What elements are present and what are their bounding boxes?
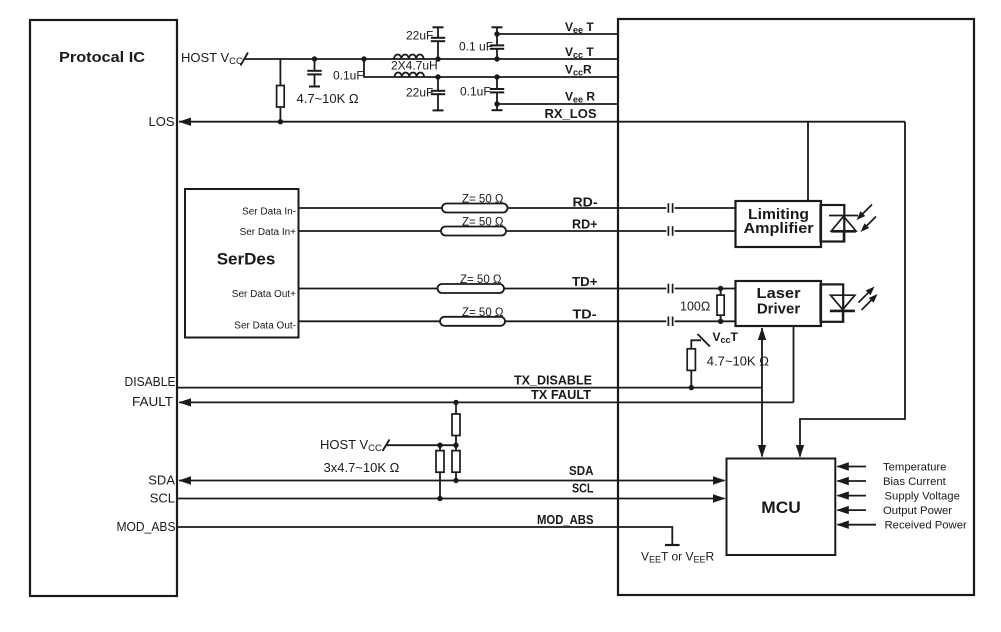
svg-text:0.1uF: 0.1uF [460, 85, 491, 99]
SerDes box U2 [185, 189, 299, 338]
svg-text:MOD_ABS: MOD_ABS [537, 512, 594, 527]
svg-text:TX_DISABLE: TX_DISABLE [514, 373, 592, 388]
svg-text:2X4.7uH: 2X4.7uH [391, 59, 438, 73]
MCU box U5 [727, 459, 836, 556]
coupling cap C7 on RD+ [667, 226, 669, 236]
arrow down into MCU (from RX_LOS routing) [796, 445, 804, 458]
wire RD+ [299, 230, 667, 232]
svg-text:SerDes: SerDes [217, 250, 276, 269]
resistor R1 4.7~10K pull-up LOS [279, 59, 281, 86]
junction R3 on TX_DISABLE [689, 385, 694, 390]
wire RD- [299, 207, 667, 209]
laser diode D2 cathode stub [842, 311, 844, 322]
junction R2 top [718, 286, 723, 291]
junction HOST Vcc / branch [361, 56, 366, 61]
svg-text:Protocal IC: Protocal IC [59, 50, 146, 66]
MCU monitor input lines [838, 466, 867, 468]
light arrowhead into D1 upper [854, 211, 865, 222]
coupling cap C9 on TD- [667, 317, 669, 327]
wire branch to lower rail [364, 59, 618, 77]
svg-text:Temperature: Temperature [883, 462, 946, 474]
svg-text:100Ω: 100Ω [680, 300, 710, 314]
transmission line Z=50 on RD- [442, 204, 508, 213]
photodiode D1 triangle [831, 216, 856, 231]
wire RX_LOS drop to Limiting Amplifier [807, 122, 809, 201]
arrow TX_FAULT into Protocal IC [179, 398, 192, 406]
svg-text:Z= 50 Ω: Z= 50 Ω [462, 194, 504, 206]
wire MOD_ABS [177, 527, 672, 545]
no-connect slash at lower HOST Vcc [383, 440, 390, 452]
svg-text:FAULT: FAULT [132, 394, 173, 409]
arrow up into Laser Driver (TX_DISABLE) [758, 328, 766, 341]
transmission line Z=50 on TD+ [438, 284, 505, 293]
photodiode D1 anode stub [843, 231, 845, 242]
junction R2 bottom [718, 319, 723, 324]
module outline box [618, 19, 974, 595]
junction R1 on LOS [278, 119, 283, 124]
wire Vee R [497, 103, 618, 105]
svg-text:Amplifier: Amplifier [744, 220, 814, 237]
light arrow out of D2 (lower) [862, 299, 874, 311]
transmission line Z=50 on RD+ [441, 227, 506, 236]
junction R5 on SCL [437, 496, 442, 501]
svg-text:MOD_ABS: MOD_ABS [117, 519, 176, 534]
wire TX_FAULT [179, 401, 794, 403]
wire TX_DISABLE [177, 387, 762, 389]
svg-text:Laser: Laser [757, 285, 801, 302]
arrow down into MCU (from laser driver line) [758, 445, 766, 458]
arrow SDA into MCU [713, 476, 726, 484]
svg-text:0.1 uF: 0.1 uF [459, 40, 493, 54]
wire TX_FAULT riser to laser driver [793, 326, 795, 402]
wire laser driver to MCU (vertical) [761, 328, 763, 457]
svg-text:RX_LOS: RX_LOS [545, 106, 597, 121]
junction R5 on HOST Vcc [437, 443, 442, 448]
svg-text:SCL: SCL [572, 481, 594, 496]
wire SDA [179, 480, 725, 482]
svg-text:TX FAULT: TX FAULT [531, 387, 591, 402]
wire HOST Vcc (lower) [387, 444, 457, 446]
photodiode D1 package box [821, 205, 845, 242]
arrow SCL into MCU [713, 494, 726, 502]
laser diode D2 triangle [831, 295, 855, 309]
inductor L2 (lower 2x4.7uH) [395, 73, 425, 78]
svg-text:RD-: RD- [573, 195, 598, 210]
svg-text:Z= 50 Ω: Z= 50 Ω [460, 274, 502, 286]
svg-text:Ser Data Out-: Ser Data Out- [234, 321, 296, 332]
svg-text:DISABLE: DISABLE [125, 374, 176, 389]
wire HOST Vcc rail [245, 58, 618, 60]
svg-text:Ser Data Out+: Ser Data Out+ [232, 289, 296, 300]
svg-text:TD-: TD- [573, 307, 597, 322]
coupling cap C6 on RD- [667, 203, 669, 213]
coupling cap C8 on TD+ [667, 284, 669, 294]
svg-text:TD+: TD+ [572, 274, 598, 289]
light arrow into D1 (upper) [861, 205, 873, 217]
arrow SDA into Protocal IC [179, 476, 192, 484]
svg-text:Ser Data In+: Ser Data In+ [240, 227, 297, 238]
resistor R6 (SDA pull-up) [455, 445, 457, 450]
resistor R4 (TX_FAULT pull-up) [455, 402, 457, 414]
Protocal IC box U1 [30, 20, 177, 596]
light arrowhead into D1 lower [858, 223, 869, 234]
light arrowhead out of D2 lower [869, 292, 880, 303]
Vee ground bar for MOD_ABS [665, 544, 680, 546]
junction C4 bottom [494, 56, 499, 61]
arrow LOS into Protocal IC [179, 118, 192, 126]
Laser Driver box U4 [736, 281, 822, 326]
svg-text:Z= 50 Ω: Z= 50 Ω [462, 307, 504, 319]
junction C1 top [312, 56, 317, 61]
svg-text:3x4.7~10K Ω: 3x4.7~10K Ω [324, 460, 400, 475]
capacitor C3 22uF (bottom) [437, 77, 439, 91]
no-connect slash at HOST Vcc [241, 53, 249, 66]
svg-text:22uF: 22uF [406, 86, 433, 100]
resistor R5 (SCL pull-up) [439, 445, 441, 450]
wire RX_LOS to MCU routing [800, 122, 905, 457]
svg-text:Output Power: Output Power [883, 505, 952, 517]
transmission line Z=50 on TD- [440, 317, 505, 326]
light arrowhead out of D2 upper [866, 284, 877, 295]
Limiting Amplifier box U3 [736, 201, 822, 247]
capacitor C5 0.1uF (bottom right) [496, 77, 498, 89]
svg-text:Driver: Driver [757, 301, 801, 318]
svg-text:SDA: SDA [148, 472, 175, 487]
svg-text:4.7~10K Ω: 4.7~10K Ω [297, 91, 359, 106]
svg-text:SDA: SDA [569, 463, 594, 478]
resistor R3 4.7~10K pull-up TX_DISABLE [691, 340, 701, 349]
capacitor C4 0.1uF (top right) [492, 26, 503, 28]
junction C5 on Vee R [494, 101, 499, 106]
svg-text:Supply Voltage: Supply Voltage [885, 491, 960, 503]
svg-text:RD+: RD+ [572, 217, 598, 232]
junction C4 on Vee T [494, 31, 499, 36]
wire TD+ [299, 288, 667, 290]
capacitor C1 0.1uF [314, 59, 316, 71]
wire TD- [299, 320, 667, 322]
svg-text:Received Power: Received Power [885, 520, 967, 532]
junction C5 top [494, 74, 499, 79]
wire SCL [177, 498, 725, 500]
svg-text:Ser Data In-: Ser Data In- [242, 207, 296, 218]
junction C2 bottom [435, 56, 440, 61]
svg-text:SCL: SCL [150, 490, 175, 505]
wire RX_LOS / LOS [179, 121, 905, 123]
junction R6 on SDA [453, 478, 458, 483]
light arrow into D1 (lower) [865, 217, 877, 229]
resistor R2 100ohm between TD+ TD- [720, 289, 722, 296]
light arrow out of D2 (upper) [859, 291, 871, 303]
arrowheads MCU monitor inputs [836, 462, 849, 470]
junction R4-R6 on HOST Vcc [453, 443, 458, 448]
laser diode D2 package box [821, 284, 844, 321]
junction C3 top [435, 74, 440, 79]
capacitor C2 22uF (top) [433, 26, 444, 28]
inductor L1 (upper 2x4.7uH) [394, 55, 424, 59]
svg-text:MCU: MCU [761, 498, 801, 517]
svg-text:22uF: 22uF [406, 29, 433, 43]
svg-text:Z= 50 Ω: Z= 50 Ω [462, 217, 504, 229]
photodiode D1 cathode bar [829, 215, 858, 217]
junction R4 on TX_FAULT [453, 400, 458, 405]
svg-text:Bias Current: Bias Current [883, 476, 947, 488]
svg-text:LOS: LOS [148, 114, 174, 129]
svg-text:0.1uF: 0.1uF [333, 69, 364, 83]
wire Vee T [497, 33, 618, 35]
svg-text:4.7~10K Ω: 4.7~10K Ω [707, 354, 769, 369]
laser diode D2 cathode bar [830, 310, 855, 313]
